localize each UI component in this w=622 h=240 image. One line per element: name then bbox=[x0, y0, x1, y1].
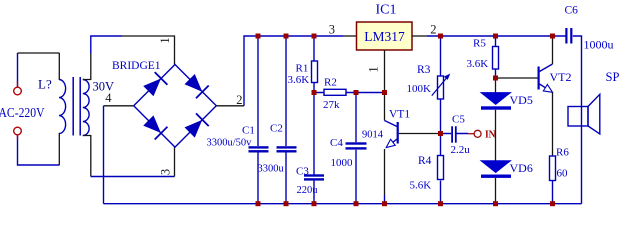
resistor R2 wires bbox=[314, 92, 385, 94]
svg-text:AC-220V: AC-220V bbox=[0, 105, 45, 120]
svg-text:1: 1 bbox=[367, 66, 381, 72]
diode VD5 bbox=[481, 93, 511, 110]
svg-text:R4: R4 bbox=[418, 155, 432, 167]
resistor R5 wires bbox=[495, 36, 497, 78]
wire LM317 pin3 stub bbox=[343, 35, 357, 37]
svg-text:VT1: VT1 bbox=[389, 109, 410, 121]
wire LM317 pin2 stub bbox=[412, 35, 427, 37]
wire IN maroon stub bbox=[468, 133, 474, 135]
svg-text:27k: 27k bbox=[323, 99, 340, 111]
transformer L primary lead bottom bbox=[58, 133, 60, 165]
capacitor C4 plates bbox=[346, 142, 367, 149]
wire VD5 to VD6 bbox=[495, 110, 497, 204]
transformer L primary lead top bbox=[58, 53, 60, 80]
svg-text:9014: 9014 bbox=[362, 130, 384, 141]
svg-text:VD5: VD5 bbox=[510, 93, 533, 107]
wire +rail LM317 to C6 bbox=[427, 35, 566, 37]
transistor VT1 emitter wire bbox=[384, 149, 386, 195]
junction dot VT1 base node bbox=[438, 131, 443, 136]
svg-text:R2: R2 bbox=[324, 77, 337, 89]
resistor R4 body bbox=[438, 156, 444, 180]
svg-text:3300u/50v: 3300u/50v bbox=[207, 138, 253, 149]
wire top run to bridge pin1 bbox=[122, 36, 175, 65]
wire secondary riser blue top bbox=[91, 36, 122, 54]
transistor VT2 bbox=[538, 64, 553, 92]
terminal circle IN bbox=[474, 130, 481, 137]
svg-text:SP: SP bbox=[606, 70, 620, 84]
wire VT1 emitter to rail bbox=[384, 195, 386, 204]
bridge diode D-bottomright bbox=[185, 113, 208, 136]
svg-text:1000u: 1000u bbox=[584, 38, 614, 52]
svg-text:60: 60 bbox=[557, 168, 569, 180]
svg-text:C3: C3 bbox=[296, 166, 309, 178]
terminal red stub bottom bbox=[17, 135, 19, 140]
bridge diode D-topleft bbox=[144, 72, 167, 95]
resistor R2 body bbox=[324, 89, 346, 95]
svg-text:L?: L? bbox=[38, 77, 52, 92]
capacitor C5 wires bbox=[441, 133, 469, 135]
transformer L primary winding bbox=[59, 80, 66, 134]
svg-text:3.6K: 3.6K bbox=[467, 58, 489, 70]
wire pin2 riser to +rail bbox=[244, 36, 343, 106]
svg-text:5.6K: 5.6K bbox=[410, 180, 432, 192]
svg-text:LM317: LM317 bbox=[364, 29, 405, 44]
resistor R3 body (pot) bbox=[438, 76, 444, 99]
capacitor C1 plates bbox=[249, 146, 269, 152]
svg-text:1000: 1000 bbox=[331, 157, 354, 169]
op-amp IC1 LM317 box bbox=[357, 22, 413, 50]
wire VT2 collector to +rail bbox=[552, 36, 554, 64]
wire bottom run to bridge pin3 bbox=[91, 176, 175, 178]
wire VT2 base row bbox=[496, 77, 538, 79]
svg-text:R5: R5 bbox=[473, 38, 486, 50]
junction dots R2 row bbox=[312, 90, 388, 95]
wire left column down to ground rail bbox=[103, 106, 105, 204]
diode VD6 bbox=[481, 161, 511, 178]
wire LM317 pin1 down bbox=[384, 50, 386, 93]
bridge diode D-bottomleft bbox=[144, 116, 167, 139]
svg-text:2: 2 bbox=[430, 23, 436, 37]
svg-text:C2: C2 bbox=[270, 123, 283, 135]
speaker SP bbox=[568, 94, 600, 134]
wire bridge pin3 stub bbox=[174, 147, 176, 177]
capacitor C2 plates bbox=[277, 146, 297, 152]
capacitor C3 plates bbox=[304, 174, 324, 180]
transformer core line 1 bbox=[72, 77, 74, 136]
transistor VT1 bbox=[385, 121, 399, 148]
wire VT2 emitter down bbox=[552, 93, 554, 157]
terminal circle P1 bbox=[14, 87, 22, 95]
svg-text:R6: R6 bbox=[556, 147, 569, 159]
svg-text:C5: C5 bbox=[452, 114, 465, 126]
svg-text:3: 3 bbox=[159, 169, 173, 175]
svg-text:3.6K: 3.6K bbox=[288, 74, 310, 86]
capacitor C5 plates bbox=[451, 126, 456, 142]
transformer L secondary winding bbox=[83, 80, 89, 136]
terminal circle P2 bbox=[14, 127, 22, 135]
svg-text:4: 4 bbox=[105, 91, 112, 105]
svg-text:1: 1 bbox=[158, 37, 172, 43]
resistor R5 body bbox=[493, 47, 499, 70]
svg-text:BRIDGE1: BRIDGE1 bbox=[112, 60, 161, 72]
svg-text:VT2: VT2 bbox=[550, 70, 572, 84]
svg-text:C1: C1 bbox=[242, 125, 255, 137]
junction dots top rail bbox=[256, 34, 556, 39]
wire C6 to speaker column bbox=[573, 36, 582, 204]
svg-text:IC1: IC1 bbox=[376, 3, 397, 18]
wire secondary bottom to bridge pin3 bbox=[83, 136, 91, 177]
resistor R1 body bbox=[312, 61, 318, 83]
wire secondary top to bridge pin1 bbox=[83, 53, 91, 80]
bridge diode D-topright bbox=[185, 75, 208, 98]
wire VT1 base row bbox=[399, 133, 441, 135]
junction dots ground rail bbox=[256, 201, 556, 206]
capacitor C4 column wire bbox=[355, 93, 357, 204]
svg-text:VD6: VD6 bbox=[510, 161, 533, 175]
svg-text:220u: 220u bbox=[297, 185, 319, 196]
wire bridge pin4 to left column bbox=[104, 105, 134, 107]
svg-text:R3: R3 bbox=[417, 64, 431, 76]
svg-text:2.2u: 2.2u bbox=[451, 144, 471, 156]
capacitor C1 column wire bbox=[257, 36, 259, 204]
resistor R6 body bbox=[550, 156, 556, 181]
junction dot VT2 base node bbox=[493, 76, 498, 81]
svg-text:C6: C6 bbox=[565, 5, 579, 17]
transistor VT1 collector wire bbox=[384, 93, 386, 121]
wire bridge pin2 stub bbox=[216, 105, 244, 107]
capacitor C2 column wire bbox=[285, 36, 287, 204]
capacitor C6 plates bbox=[565, 28, 572, 44]
svg-text:2: 2 bbox=[236, 93, 242, 107]
svg-text:R1: R1 bbox=[296, 63, 309, 75]
svg-text:100K: 100K bbox=[407, 83, 432, 95]
resistor R1 wire column bbox=[313, 36, 315, 93]
wire R6 to rail bbox=[552, 181, 554, 204]
AC source box top edge bbox=[18, 52, 60, 54]
resistor R3 wires bbox=[440, 36, 442, 134]
svg-text:IN: IN bbox=[485, 129, 496, 141]
AC source box bottom edge and left-bottom wire bbox=[18, 135, 60, 165]
capacitor C3 column wire bbox=[313, 93, 315, 204]
svg-text:3: 3 bbox=[329, 23, 335, 37]
svg-text:C4: C4 bbox=[330, 137, 343, 149]
ground rail bbox=[104, 203, 582, 205]
transformer core line 2 bbox=[79, 77, 81, 136]
bridge BRIDGE1 diamond bbox=[134, 65, 217, 148]
resistor R4 wires bbox=[440, 134, 442, 204]
terminal red stub top bbox=[17, 82, 19, 88]
svg-text:3300u: 3300u bbox=[258, 164, 285, 175]
AC source box left wire top bbox=[17, 53, 19, 87]
resistor R3 arrow bbox=[432, 74, 450, 95]
diode VD5 wire top bbox=[495, 78, 497, 93]
